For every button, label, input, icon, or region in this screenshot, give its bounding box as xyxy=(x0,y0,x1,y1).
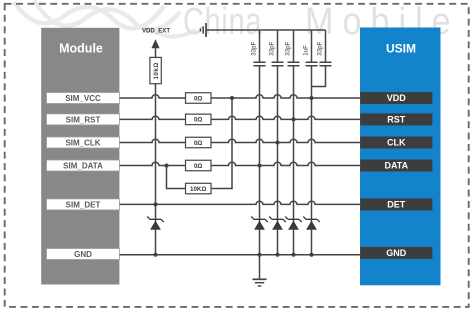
svg-text:33pF: 33pF xyxy=(285,41,292,55)
capacitor 33pF VDD xyxy=(320,62,332,65)
svg-text:0Ω: 0Ω xyxy=(194,163,202,170)
wire cap column 33pF-VDD jog xyxy=(312,30,326,87)
svg-text:1uF: 1uF xyxy=(303,45,310,56)
ground (top left sideways) xyxy=(201,23,207,37)
svg-text:SIM_RST: SIM_RST xyxy=(66,115,101,124)
pin RST (USIM) xyxy=(360,113,432,125)
svg-text:SIM_CLK: SIM_CLK xyxy=(65,138,100,147)
pin DET (USIM) xyxy=(360,198,432,210)
junction DATA/cap xyxy=(258,164,262,168)
svg-text:GND: GND xyxy=(74,250,92,259)
TVS diode VDD xyxy=(303,217,320,230)
wire ground rail top xyxy=(206,29,326,31)
svg-text:10KΩ: 10KΩ xyxy=(190,186,206,193)
pin GND (USIM) xyxy=(360,247,432,259)
svg-text:10kΩ: 10kΩ xyxy=(153,62,160,79)
TVS diode DET xyxy=(147,217,164,230)
junction VCC/10K xyxy=(230,96,234,100)
svg-text:VDD: VDD xyxy=(387,93,407,103)
junction GND/TVS-DATA xyxy=(258,253,262,257)
resistor 0R RST xyxy=(186,114,212,125)
svg-text:China: China xyxy=(183,0,262,43)
junction DATA/10K xyxy=(165,164,169,168)
svg-text:SIM_DATA: SIM_DATA xyxy=(63,161,103,170)
resistor 10K pull-up DATA xyxy=(186,183,212,194)
capacitor 33pF DATA xyxy=(254,62,266,65)
junction GND/TVS-DET xyxy=(154,253,158,257)
svg-text:SIM_DET: SIM_DET xyxy=(66,200,101,209)
resistor 10k vertical (VDD_EXT pull-up) xyxy=(150,57,161,83)
pin SIM_DATA (module) xyxy=(47,160,120,171)
resistor 0R CLK xyxy=(186,137,212,148)
pin VDD (USIM) xyxy=(360,92,432,104)
junction DET/pullup xyxy=(154,202,158,206)
ground (bottom) xyxy=(253,279,267,286)
wire cap column DATA xyxy=(259,30,261,279)
svg-text:33pF: 33pF xyxy=(251,41,258,55)
wire DET xyxy=(120,201,361,204)
TVS diode DATA xyxy=(251,217,268,230)
svg-text:DATA: DATA xyxy=(384,161,408,171)
junction CLK/cap xyxy=(276,141,280,145)
capacitor 33pF CLK xyxy=(272,62,284,65)
wire CLK xyxy=(120,139,361,142)
USIM block xyxy=(360,28,441,286)
junction GND/TVS-RST xyxy=(292,253,296,257)
svg-text:33pF: 33pF xyxy=(317,41,324,55)
svg-text:33pF: 33pF xyxy=(269,41,276,55)
svg-text:USIM: USIM xyxy=(386,42,416,56)
pin DATA (USIM) xyxy=(360,160,432,172)
resistor 0R VCC xyxy=(186,93,212,104)
svg-text:CLK: CLK xyxy=(387,138,406,148)
wire 10K branch right to VCC xyxy=(211,98,232,189)
svg-text:0Ω: 0Ω xyxy=(194,117,202,124)
svg-text:SIM_VCC: SIM_VCC xyxy=(65,94,101,103)
svg-text:DET: DET xyxy=(387,200,406,210)
svg-text:GND: GND xyxy=(386,248,407,258)
pin SIM_DET (module) xyxy=(47,199,120,210)
junction RST/cap xyxy=(292,117,296,121)
pin CLK (USIM) xyxy=(360,137,432,149)
TVS diode RST xyxy=(285,217,302,230)
svg-text:VDD_EXT: VDD_EXT xyxy=(142,28,170,35)
module block xyxy=(41,28,119,285)
watermark xyxy=(14,0,196,37)
wire GND xyxy=(120,254,361,256)
wire cap column VDD xyxy=(311,30,313,255)
svg-text:Module: Module xyxy=(59,42,103,56)
pin SIM_VCC (module) xyxy=(47,93,120,104)
wire DATA xyxy=(120,162,361,165)
pin GND (module) xyxy=(47,249,120,260)
wire 10K branch left xyxy=(167,166,186,189)
TVS diode CLK xyxy=(269,217,286,230)
svg-text:0Ω: 0Ω xyxy=(194,140,202,147)
wire RST xyxy=(120,116,361,119)
svg-text:RST: RST xyxy=(387,115,406,125)
pin SIM_CLK (module) xyxy=(47,137,120,148)
capacitor 33pF RST xyxy=(288,62,300,65)
junction GND/TVS-CLK xyxy=(276,253,280,257)
junction VCC/caps xyxy=(310,96,314,100)
pin SIM_RST (module) xyxy=(47,114,120,125)
resistor 0R DATA xyxy=(186,160,212,171)
net VDD_EXT arrow xyxy=(151,39,159,48)
svg-text:0Ω: 0Ω xyxy=(194,95,202,102)
wire VCC xyxy=(120,95,361,98)
wire cap column RST xyxy=(293,30,295,255)
junction GND/TVS-VDD xyxy=(310,253,314,257)
wire cap column CLK xyxy=(277,30,279,255)
capacitor 1uF VDD xyxy=(306,62,318,65)
wire net VDD_EXT stem xyxy=(155,48,157,255)
